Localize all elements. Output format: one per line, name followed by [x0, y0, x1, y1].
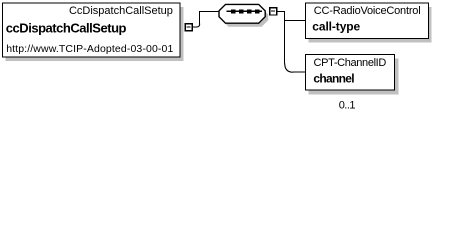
- svg-text:CPT-ChannelID: CPT-ChannelID: [314, 57, 387, 69]
- element box channel: [306, 54, 399, 94]
- sequence symbol (octagon with 4 squares): [219, 4, 265, 23]
- wire sequence to children: [277, 11, 306, 72]
- wire branch to call-type: [285, 19, 306, 21]
- collapse box (minus) left: [185, 24, 192, 31]
- svg-text:http://www.TCIP-Adopted-03-00-: http://www.TCIP-Adopted-03-00-01: [6, 43, 173, 55]
- svg-text:call-type: call-type: [312, 20, 360, 34]
- svg-text:0..1: 0..1: [339, 100, 356, 112]
- svg-text:CC-RadioVoiceControl: CC-RadioVoiceControl: [314, 5, 421, 17]
- element box ccDispatchCallSetup (root): [3, 3, 184, 61]
- svg-text:ccDispatchCallSetup: ccDispatchCallSetup: [6, 20, 127, 35]
- element box call-type: [306, 3, 432, 43]
- svg-text:channel: channel: [313, 72, 354, 86]
- collapse box (minus) right: [270, 8, 277, 15]
- wire root to sequence: [193, 11, 220, 27]
- svg-text:CcDispatchCallSetup: CcDispatchCallSetup: [69, 5, 173, 17]
- sequence symbol shadow: [222, 8, 268, 27]
